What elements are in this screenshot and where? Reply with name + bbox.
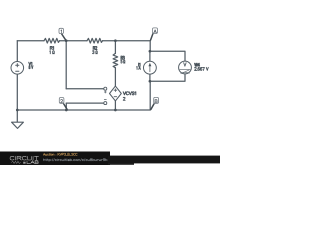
- wire node 2 drop: [65, 103, 67, 110]
- wire right drop to node B: [149, 81, 151, 110]
- wire R3 to VCVS1: [114, 68, 116, 86]
- wire R3 junction to node A: [115, 40, 150, 42]
- voltage source V1: [11, 62, 24, 75]
- watermark bar: [0, 152, 110, 166]
- watermark CircuitLab logo: [10, 156, 38, 163]
- wire top left segment: [17, 40, 44, 42]
- node 1 callout: [59, 28, 66, 40]
- VCVS1 control pin plus: [104, 87, 107, 93]
- dependent source VCVS1: [110, 86, 122, 101]
- wire node A drop: [149, 41, 151, 52]
- wire VCVS1 bottom lead: [114, 101, 116, 110]
- label I1 value: [137, 63, 141, 69]
- wire node 1 down: [65, 41, 67, 89]
- wire VCVS plus control: [66, 88, 104, 90]
- junction dots: [16, 39, 151, 111]
- resistor R3: [113, 53, 118, 67]
- wire bottom rail: [17, 109, 150, 111]
- wire bottom right rail to VM4: [150, 74, 185, 81]
- resistor R1: [44, 38, 60, 43]
- wire I1 bottom lead: [149, 74, 151, 81]
- ground: [12, 122, 24, 128]
- wire V1 top lead: [16, 41, 18, 62]
- wire R3 top lead: [114, 41, 116, 54]
- label VM4 value: [195, 63, 209, 70]
- watermark url text: [43, 159, 107, 162]
- wire R2 to R3 junction: [103, 40, 116, 42]
- node A callout: [151, 28, 158, 40]
- voltmeter VM4: [179, 61, 192, 74]
- wire VCVS minus control: [66, 102, 104, 104]
- VCVS1 control pin minus: [104, 99, 107, 104]
- wire ground stub: [16, 110, 18, 122]
- wire R1 right lead to node 1: [60, 40, 67, 42]
- node 2 callout: [59, 98, 67, 110]
- label VCVS1 value: [123, 92, 136, 101]
- resistor R2: [87, 38, 103, 43]
- label R2 value: [92, 47, 97, 54]
- wire V1 bottom lead: [16, 74, 18, 110]
- label R3 value: [121, 56, 125, 63]
- wire node 1 to R2: [66, 40, 87, 42]
- label R1 value: [50, 47, 55, 54]
- wire top right rail to VM4: [150, 51, 185, 61]
- node B callout: [151, 97, 159, 109]
- label V1 value: [29, 62, 33, 68]
- current source I1: [144, 61, 157, 74]
- wire I1 top lead: [149, 51, 151, 61]
- watermark title text: [43, 153, 77, 156]
